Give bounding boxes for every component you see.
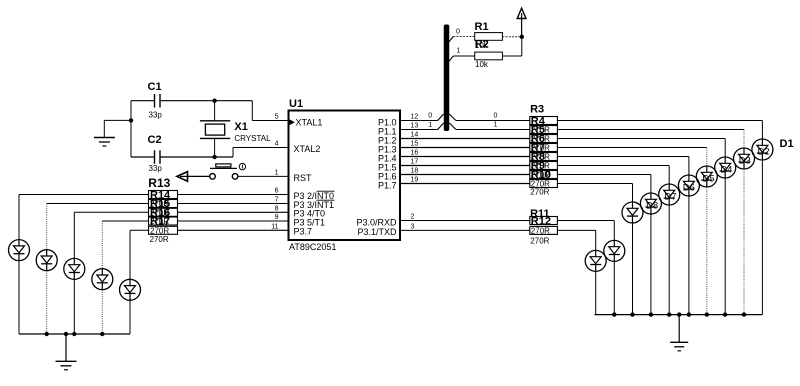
wire R16 to LED column 4 bbox=[102, 221, 148, 269]
U1 pin number 13 bbox=[411, 123, 419, 130]
wire R14 to U1 pin bbox=[178, 203, 289, 205]
resistor R15 bbox=[149, 207, 178, 219]
U1 pin name P1.3 bbox=[378, 144, 397, 154]
LED D13 bbox=[64, 258, 85, 279]
wire LED D1 to ground bus bbox=[761, 160, 763, 315]
U1 pin name RST bbox=[294, 173, 313, 183]
wire to ground (top-left) bbox=[104, 120, 131, 137]
svg-text:33p: 33p bbox=[149, 164, 163, 173]
wire bus to R3 (net 0) bbox=[449, 114, 529, 121]
wire U1 P1.3 to R6 bbox=[400, 147, 530, 149]
svg-text:D7: D7 bbox=[664, 192, 676, 203]
svg-text:7: 7 bbox=[275, 197, 279, 204]
ground bus (right) bbox=[594, 314, 762, 316]
wire LED D15 to ground bus bbox=[129, 300, 131, 334]
D4 label bbox=[720, 165, 732, 176]
wire U1 P1.5 to R8 bbox=[400, 165, 530, 167]
wire R14 to LED column 2 bbox=[47, 204, 149, 250]
bus (thick vertical) bbox=[444, 25, 450, 132]
wire R15 to LED column 3 bbox=[74, 212, 148, 258]
resistor R14 bbox=[149, 198, 178, 210]
op U1 AT89C2051 body bbox=[289, 98, 401, 240]
svg-text:8: 8 bbox=[275, 205, 279, 212]
wire bus to R2 (net 1) bbox=[449, 56, 475, 62]
svg-text:D6: D6 bbox=[683, 183, 695, 194]
C1 value 33p bbox=[149, 110, 163, 119]
wire U1 P3.1 to R12 bbox=[400, 229, 530, 231]
svg-text:13: 13 bbox=[411, 123, 419, 130]
svg-text:R13: R13 bbox=[148, 176, 170, 190]
D8 label bbox=[646, 201, 658, 212]
svg-text:D8: D8 bbox=[646, 201, 658, 212]
capacitor C1 bbox=[148, 81, 162, 108]
resistor R2 value 10k bbox=[475, 60, 489, 69]
resistor stack R3 label bbox=[530, 104, 544, 116]
wire LED D7 to ground bus bbox=[650, 214, 652, 315]
R10 value 270R bbox=[530, 187, 549, 196]
wire R17 to LED column 5 bbox=[130, 230, 149, 279]
svg-text:CRYSTAL: CRYSTAL bbox=[234, 134, 271, 143]
R12 value 270R bbox=[530, 237, 549, 246]
U1 pin name XTAL2 bbox=[294, 144, 321, 154]
R17 value 270R bbox=[150, 235, 169, 244]
svg-text:R2: R2 bbox=[475, 39, 489, 51]
svg-text:D4: D4 bbox=[720, 165, 732, 176]
ground (top-left) bbox=[94, 138, 115, 147]
resistor R13 bbox=[149, 190, 178, 202]
wire R8 to LED D6 bbox=[557, 166, 669, 185]
svg-text:2: 2 bbox=[411, 214, 415, 221]
svg-text:270R: 270R bbox=[531, 227, 550, 236]
U1 pin name P1.7 bbox=[378, 180, 397, 190]
wire U1 P3.0 to R11 bbox=[400, 220, 530, 222]
svg-text:11: 11 bbox=[271, 223, 278, 230]
resistor R12 bbox=[530, 226, 558, 235]
U1 pin number 4 bbox=[275, 141, 279, 148]
svg-text:0: 0 bbox=[428, 113, 432, 120]
junction dot right bus bbox=[649, 312, 653, 316]
wire R16 to U1 pin bbox=[178, 220, 289, 222]
junction dot right bus bbox=[723, 312, 727, 316]
U1 pin number 1 bbox=[275, 169, 279, 176]
D6 label bbox=[683, 183, 695, 194]
junction dot ground branch bbox=[129, 118, 133, 122]
svg-text:270R: 270R bbox=[150, 217, 169, 226]
junction dot right bus bbox=[687, 312, 691, 316]
wire C2 right to XTAL2 bbox=[160, 148, 289, 158]
junction dot right bus bbox=[705, 312, 709, 316]
wire U1 P1.0 to bus (net 0) bbox=[400, 114, 444, 121]
wire U1 P1.6 to R9 bbox=[400, 174, 530, 176]
junction dot right bus bbox=[630, 312, 634, 316]
svg-text:C2: C2 bbox=[148, 134, 162, 146]
D5 label bbox=[702, 174, 714, 185]
U1 pin name P1.6 bbox=[378, 171, 397, 181]
crystal X1 bbox=[200, 101, 230, 157]
wire U1 P1.2 to R5 bbox=[400, 138, 530, 140]
resistor R1 value 10k bbox=[475, 41, 489, 50]
U1 pin number 8 bbox=[275, 205, 279, 212]
wire LED D4 to ground bus bbox=[706, 187, 708, 315]
wire bus to R4 (net 1) bbox=[449, 123, 529, 130]
C2 value 33p bbox=[149, 164, 163, 173]
resistor R10 bbox=[530, 180, 558, 189]
resistor stack R13 label bbox=[148, 176, 170, 190]
resistor R5 bbox=[530, 133, 558, 145]
svg-text:P1.7: P1.7 bbox=[378, 180, 397, 190]
svg-text:P3.0/RXD: P3.0/RXD bbox=[356, 217, 397, 227]
wire arrow to button bbox=[188, 175, 210, 177]
net label 1 at R2 bbox=[457, 48, 461, 55]
resistor R7 bbox=[530, 151, 558, 163]
D7 label bbox=[664, 192, 676, 203]
net label 0 at R1 bbox=[456, 29, 460, 36]
power VCC arrow bbox=[517, 8, 526, 37]
svg-text:X1: X1 bbox=[234, 121, 247, 133]
svg-text:270R: 270R bbox=[531, 171, 550, 180]
svg-text:RST: RST bbox=[294, 173, 313, 183]
U1 pin name P3.2/INT0 bbox=[294, 191, 335, 201]
wire LED D5 to ground bus bbox=[688, 196, 690, 315]
U1 pin name P1.0 bbox=[378, 117, 397, 127]
wire LED D8 to ground bus bbox=[632, 223, 634, 315]
LED D5 bbox=[678, 175, 699, 196]
LED D12 bbox=[36, 250, 57, 271]
LED D11 bbox=[9, 240, 30, 261]
U1 pin name P3.1/TXD bbox=[357, 227, 397, 237]
capacitor C2 bbox=[148, 134, 162, 164]
junction dot left bus bbox=[72, 332, 76, 336]
U1 pin number 17 bbox=[411, 159, 419, 166]
X1 value CRYSTAL bbox=[234, 134, 271, 143]
wire R17 to U1 pin bbox=[178, 229, 289, 231]
resistor stack R11 label bbox=[530, 208, 550, 220]
junction dot ground stem left bbox=[64, 332, 68, 336]
svg-text:4: 4 bbox=[275, 141, 279, 148]
wire R11 to LED D9 bbox=[557, 221, 614, 241]
svg-text:15: 15 bbox=[411, 141, 419, 148]
wire R3 to LED D1 bbox=[557, 121, 762, 140]
junction dot right bus bbox=[742, 312, 746, 316]
wire R5 to LED D3 bbox=[557, 139, 725, 158]
U1 pin number 19 bbox=[411, 177, 419, 184]
LED D2 bbox=[734, 148, 755, 169]
resistor R1 bbox=[475, 21, 503, 40]
svg-text:D5: D5 bbox=[702, 174, 714, 185]
resistor R17 bbox=[149, 226, 178, 235]
wire R4 to LED D2 bbox=[557, 130, 744, 149]
U1 pin number 15 bbox=[411, 141, 419, 148]
U1 pin name XTAL1 + clock mark bbox=[289, 117, 322, 127]
wire button to RST bbox=[238, 175, 289, 177]
net label 1 (left of bus) bbox=[428, 122, 432, 129]
U1 pin number 6 bbox=[275, 188, 279, 195]
svg-text:6: 6 bbox=[275, 188, 279, 195]
wire C1 left to corner bbox=[131, 100, 155, 102]
D1 label bbox=[780, 138, 794, 150]
wire to ground (bottom-left) bbox=[65, 334, 67, 361]
wire LED D2 to ground bus bbox=[743, 169, 745, 315]
wire R7 to LED D5 bbox=[557, 157, 689, 176]
wire U1 P1.7 to R10 bbox=[400, 183, 530, 185]
junction dot left bus bbox=[45, 332, 49, 336]
wire R12 to LED D10 bbox=[557, 230, 595, 250]
U1 pin name P1.5 bbox=[378, 162, 397, 172]
svg-text:1: 1 bbox=[494, 122, 498, 129]
svg-text:D3: D3 bbox=[739, 156, 751, 167]
wire LED D10 to ground bus bbox=[595, 271, 597, 314]
resistor R16 bbox=[149, 216, 178, 228]
junction dot crystal bottom bbox=[212, 155, 216, 159]
wire R10 to LED D8 bbox=[557, 184, 632, 203]
wire R1 to power junction bbox=[502, 36, 521, 38]
push button (reset) bbox=[210, 163, 246, 179]
svg-text:270R: 270R bbox=[530, 187, 549, 196]
X1 label bbox=[234, 121, 247, 133]
svg-text:1: 1 bbox=[428, 122, 432, 129]
svg-text:0: 0 bbox=[456, 29, 460, 36]
U1 pin name P3.5/T1 bbox=[294, 217, 326, 227]
svg-text:12: 12 bbox=[411, 114, 419, 121]
junction dot right bus bbox=[667, 312, 671, 316]
svg-text:U1: U1 bbox=[289, 98, 303, 110]
U1 pin number 5 bbox=[275, 114, 279, 121]
svg-text:R1: R1 bbox=[475, 21, 489, 33]
LED D9 bbox=[604, 240, 625, 261]
ground (bottom-left) bbox=[56, 361, 77, 370]
svg-text:270R: 270R bbox=[530, 237, 549, 246]
resistor R3 bbox=[530, 116, 558, 128]
wire C1 right to XTAL1 corner bbox=[160, 101, 289, 121]
svg-text:0: 0 bbox=[494, 112, 498, 119]
wire R13 to LED column 1 bbox=[19, 195, 149, 240]
U1 pin number 16 bbox=[411, 150, 419, 157]
svg-text:16: 16 bbox=[411, 150, 419, 157]
svg-text:P3.7: P3.7 bbox=[294, 227, 313, 237]
wire LED D14 to ground bus bbox=[101, 290, 103, 334]
U1 pin number 9 bbox=[275, 214, 279, 221]
wire R15 to U1 pin bbox=[178, 211, 289, 213]
svg-text:XTAL2: XTAL2 bbox=[294, 144, 321, 154]
U1 pin name P3.3/INT1 bbox=[294, 200, 335, 210]
U1 pin name P1.2 bbox=[378, 135, 397, 145]
svg-text:9: 9 bbox=[275, 214, 279, 221]
svg-text:1: 1 bbox=[457, 48, 461, 55]
U1 pin name P1.4 bbox=[378, 153, 397, 163]
resistor R9 bbox=[530, 169, 558, 181]
resistor R4 bbox=[530, 124, 558, 136]
wire LED D6 to ground bus bbox=[668, 205, 670, 315]
resistor R2 bbox=[475, 39, 503, 60]
U1 pin number 14 bbox=[411, 132, 419, 139]
reset arrow (default symbol) bbox=[177, 172, 188, 182]
svg-text:P3.1/TXD: P3.1/TXD bbox=[357, 227, 397, 237]
LED D15 bbox=[120, 279, 141, 300]
U1 pin name P3.4/T0 bbox=[294, 209, 326, 219]
svg-text:19: 19 bbox=[411, 177, 419, 184]
wire LED D13 to ground bus bbox=[73, 279, 75, 334]
wire LED D12 to ground bus bbox=[46, 271, 48, 334]
wire R6 to LED D4 bbox=[557, 148, 706, 167]
D2 label bbox=[758, 147, 770, 158]
svg-text:D1: D1 bbox=[780, 138, 794, 150]
LED D7 bbox=[640, 193, 661, 214]
junction dot R1/R2/power bbox=[520, 35, 524, 39]
svg-text:AT89C2051: AT89C2051 bbox=[289, 242, 336, 252]
wire C1-C2 vertical bbox=[130, 101, 132, 157]
svg-text:XTAL1: XTAL1 bbox=[296, 117, 323, 127]
LED D14 bbox=[92, 269, 113, 290]
LED D4 bbox=[696, 166, 717, 187]
svg-text:3: 3 bbox=[411, 223, 415, 230]
LED D10 bbox=[585, 250, 606, 271]
svg-text:10k: 10k bbox=[475, 60, 489, 69]
U1 pin name P1.1 bbox=[378, 126, 397, 136]
junction dot left bus bbox=[100, 332, 104, 336]
U1 part name AT89C2051 bbox=[289, 242, 336, 252]
U1 pin number 7 bbox=[275, 197, 279, 204]
wire R13 to U1 pin bbox=[178, 194, 289, 196]
resistor R11 bbox=[530, 216, 558, 228]
ground bus (left) bbox=[19, 333, 130, 335]
svg-text:18: 18 bbox=[411, 168, 419, 175]
LED D6 bbox=[659, 184, 680, 205]
U1 pin number 2 bbox=[411, 214, 415, 221]
wire C2 left bbox=[131, 156, 155, 158]
LED D1 bbox=[752, 139, 773, 160]
wire LED D3 to ground bus bbox=[724, 178, 726, 315]
wire LED D9 to ground bus bbox=[613, 261, 615, 314]
U1 pin number 12 bbox=[411, 114, 419, 121]
wire to ground (bottom-right) bbox=[678, 315, 680, 343]
U1 pin name P3.0/RXD bbox=[356, 217, 397, 227]
resistor R6 bbox=[530, 142, 558, 154]
wire bus to R1 (net 0) bbox=[449, 37, 475, 43]
net label 0 (left of bus) bbox=[428, 113, 432, 120]
svg-text:C1: C1 bbox=[148, 81, 162, 93]
svg-text:14: 14 bbox=[411, 132, 419, 139]
D3 label bbox=[739, 156, 751, 167]
svg-text:5: 5 bbox=[275, 114, 279, 121]
wire R9 to LED D7 bbox=[557, 175, 651, 194]
U1 pin number 18 bbox=[411, 168, 419, 175]
svg-text:R3: R3 bbox=[530, 104, 544, 116]
net label 1 (right of bus) bbox=[494, 122, 498, 129]
LED D8 bbox=[622, 202, 643, 223]
svg-text:270R: 270R bbox=[150, 227, 169, 236]
U1 pin name P3.7 bbox=[294, 227, 313, 237]
svg-text:17: 17 bbox=[411, 159, 419, 166]
U1 pin number 11 bbox=[271, 223, 278, 230]
junction dot right bus bbox=[612, 312, 616, 316]
svg-text:D2: D2 bbox=[758, 147, 770, 158]
U1 pin number 3 bbox=[411, 223, 415, 230]
svg-text:33p: 33p bbox=[149, 110, 163, 119]
resistor R8 bbox=[530, 160, 558, 172]
svg-text:1: 1 bbox=[275, 169, 279, 176]
junction dot crystal top bbox=[212, 99, 216, 103]
LED D3 bbox=[715, 157, 736, 178]
wire U1 P1.1 to bus (net 1) bbox=[400, 123, 444, 130]
wire U1 P1.4 to R7 bbox=[400, 156, 530, 158]
wire R2 to power junction bbox=[502, 37, 521, 56]
net label 0 (right of bus) bbox=[494, 112, 498, 119]
wire LED D11 to ground bus bbox=[18, 261, 20, 334]
ground (bottom-right) bbox=[670, 342, 688, 351]
junction dot ground stem right bbox=[677, 312, 681, 316]
svg-text:270R: 270R bbox=[150, 235, 169, 244]
